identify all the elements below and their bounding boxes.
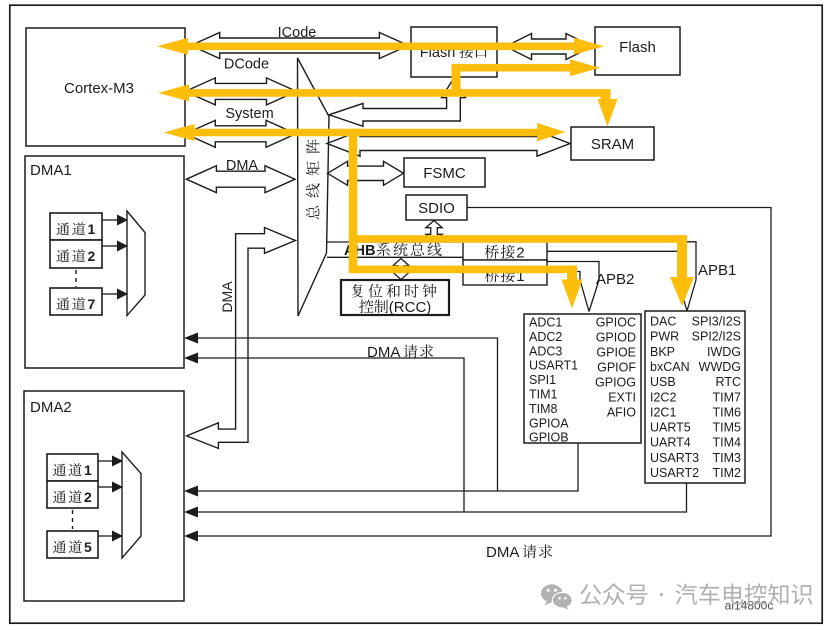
DMA request line to DMA1 lower	[184, 353, 464, 513]
DMA request line APB2 bottom to DMA2	[184, 444, 578, 497]
DMA1 arbiter trapezoid	[127, 211, 145, 316]
svg-text:I2C2: I2C2	[650, 390, 676, 404]
Cortex-M3 box	[26, 28, 185, 146]
svg-text:IWDG: IWDG	[707, 345, 741, 359]
svg-text:RTC: RTC	[716, 375, 741, 389]
svg-text:ADC3: ADC3	[529, 344, 562, 358]
matrix to Flash interface elbow arrow	[329, 79, 466, 127]
DMA2 channel 通道5	[47, 531, 98, 558]
svg-text:DMA: DMA	[486, 544, 519, 561]
svg-text:USART3: USART3	[650, 451, 699, 465]
svg-text:TIM7: TIM7	[713, 390, 742, 404]
DMA bus arrow (DMA1 to matrix)	[186, 158, 295, 193]
SDIO to AHB vertical arrow	[426, 221, 442, 242]
DMA1 channel2 to arbiter arrow	[102, 241, 128, 252]
svg-text:2: 2	[88, 248, 98, 264]
DCode bus arrow	[185, 57, 296, 105]
APB2 peripherals box	[524, 314, 641, 443]
DMA1 channel 通道1	[50, 213, 102, 240]
AHB system bus label	[344, 242, 442, 259]
svg-text:UART4: UART4	[650, 436, 691, 450]
matrix to SRAM arrow	[327, 131, 570, 156]
DMA1 box	[25, 156, 184, 368]
yellow highlight AHB to APB1 path	[349, 235, 694, 306]
bridge1 box 桥接1	[463, 260, 547, 285]
APB1 funnel	[678, 280, 687, 311]
DMA1 channel7 to arbiter arrow	[102, 289, 128, 300]
svg-text:bxCAN: bxCAN	[650, 360, 690, 374]
DMA1 channel1 to arbiter arrow	[102, 215, 128, 226]
svg-text:DAC: DAC	[650, 315, 676, 329]
svg-text:WWDG: WWDG	[699, 360, 741, 374]
svg-text:APB1: APB1	[698, 262, 736, 279]
yellow highlight ICode path	[157, 38, 604, 55]
svg-text:TIM4: TIM4	[713, 436, 742, 450]
bridge1 to APB2 bus lines	[547, 262, 599, 281]
FSMC box	[404, 158, 485, 187]
svg-text:GPIOA: GPIOA	[529, 416, 569, 430]
svg-text:System: System	[225, 106, 273, 122]
svg-text:Flash: Flash	[619, 39, 656, 56]
svg-text:DCode: DCode	[224, 57, 269, 73]
DMA vertical bus (matrix to DMA2)	[187, 228, 296, 449]
yellow highlight DCode-SRAM path	[158, 59, 618, 126]
svg-text:1: 1	[88, 221, 98, 237]
svg-text:TIM1: TIM1	[529, 388, 558, 402]
DMA2 channel5 to arbiter arrow	[98, 531, 123, 542]
svg-text:USART2: USART2	[650, 466, 699, 480]
svg-text:GPIOB: GPIOB	[529, 431, 569, 445]
DMA2 box	[24, 391, 184, 601]
svg-text:DMA2: DMA2	[30, 399, 72, 416]
DMA1 channel 通道7	[50, 288, 102, 315]
DMA1 dashed ellipsis	[75, 270, 77, 287]
watermark text	[580, 583, 812, 605]
System bus arrow	[185, 106, 296, 147]
svg-text:SRAM: SRAM	[591, 136, 634, 153]
svg-text:ADC1: ADC1	[529, 316, 562, 330]
svg-text:UART5: UART5	[650, 421, 691, 435]
DMA request line from APB2 via x497 to DMA1	[184, 333, 498, 492]
ICode bus arrow	[191, 25, 409, 59]
svg-text:TIM6: TIM6	[713, 405, 742, 419]
svg-text:BKP: BKP	[650, 345, 675, 359]
bridge2 box 桥接2	[463, 239, 547, 262]
DMA2 channel1 to arbiter arrow	[98, 456, 123, 467]
DMA2 channel2 to arbiter arrow	[98, 482, 123, 493]
bus matrix 总线矩阵	[298, 58, 330, 316]
AHB to RCC vertical arrow	[393, 259, 409, 280]
svg-text:GPIOC: GPIOC	[596, 316, 636, 330]
APB2 funnel	[580, 280, 589, 312]
RCC box 复位和时钟控制	[341, 280, 449, 316]
svg-text:SPI3/I2S: SPI3/I2S	[692, 315, 741, 329]
svg-text:SPI1: SPI1	[529, 373, 556, 387]
yellow highlight System-SRAM path	[164, 123, 566, 273]
Flash interface to Flash arrow	[506, 34, 593, 60]
svg-text:DMA: DMA	[219, 281, 235, 313]
svg-text:TIM3: TIM3	[713, 451, 742, 465]
svg-text:I2C1: I2C1	[650, 405, 676, 419]
watermark wechat icon	[541, 584, 573, 609]
svg-text:PWR: PWR	[650, 330, 679, 344]
APB1 peripherals box	[645, 311, 745, 483]
DMA2 channel 通道2	[47, 481, 98, 508]
svg-text:1: 1	[84, 462, 94, 478]
svg-text:GPIOG: GPIOG	[595, 376, 636, 390]
svg-text:ADC2: ADC2	[529, 330, 562, 344]
Flash interface box Flash接口	[411, 27, 497, 77]
DMA2 arbiter trapezoid	[122, 452, 141, 558]
DMA request line from SDIO around right side to DMA2	[184, 208, 771, 542]
svg-text:EXTI: EXTI	[608, 391, 636, 405]
svg-text:2: 2	[84, 489, 94, 505]
yellow highlight AHB to APB2 path	[349, 266, 583, 309]
matrix to FSMC arrow	[328, 161, 404, 185]
DMA request line APB1 bottom to DMA2	[184, 483, 687, 518]
svg-text:USART1: USART1	[529, 359, 578, 373]
SDIO box	[406, 195, 467, 220]
svg-text:2: 2	[516, 245, 525, 262]
svg-text:SDIO: SDIO	[418, 200, 455, 217]
svg-text:AHB: AHB	[344, 243, 375, 259]
svg-text:DMA1: DMA1	[30, 162, 72, 179]
svg-text:AFIO: AFIO	[607, 406, 636, 420]
DMA2 dashed ellipsis	[72, 510, 74, 529]
svg-text:GPIOE: GPIOE	[596, 346, 636, 360]
svg-text:ICode: ICode	[278, 25, 317, 41]
svg-text:TIM8: TIM8	[529, 402, 558, 416]
Flash box	[595, 27, 680, 75]
svg-text:FSMC: FSMC	[423, 165, 466, 182]
svg-text:Cortex-M3: Cortex-M3	[64, 80, 134, 97]
svg-text:TIM5: TIM5	[713, 421, 742, 435]
svg-text:(RCC): (RCC)	[389, 299, 432, 316]
DMA request label upper	[367, 344, 433, 361]
svg-text:DMA: DMA	[226, 158, 259, 174]
svg-text:GPIOD: GPIOD	[596, 331, 636, 345]
DMA1 channel 通道2	[50, 240, 102, 268]
SRAM box	[571, 127, 654, 160]
DMA2 channel 通道1	[47, 454, 98, 481]
svg-text:USB: USB	[650, 375, 676, 389]
DMA request label bottom	[486, 544, 552, 561]
svg-text:TIM2: TIM2	[713, 466, 742, 480]
svg-text:7: 7	[88, 296, 98, 312]
svg-text:SPI2/I2S: SPI2/I2S	[692, 330, 741, 344]
svg-text:5: 5	[84, 539, 94, 555]
bridge2 to APB1 bus lines	[547, 242, 696, 280]
svg-text:APB2: APB2	[596, 271, 634, 288]
AHB system bus band AHB系统总线	[327, 242, 463, 257]
svg-text:DMA: DMA	[367, 344, 400, 361]
svg-text:GPIOF: GPIOF	[597, 361, 636, 375]
